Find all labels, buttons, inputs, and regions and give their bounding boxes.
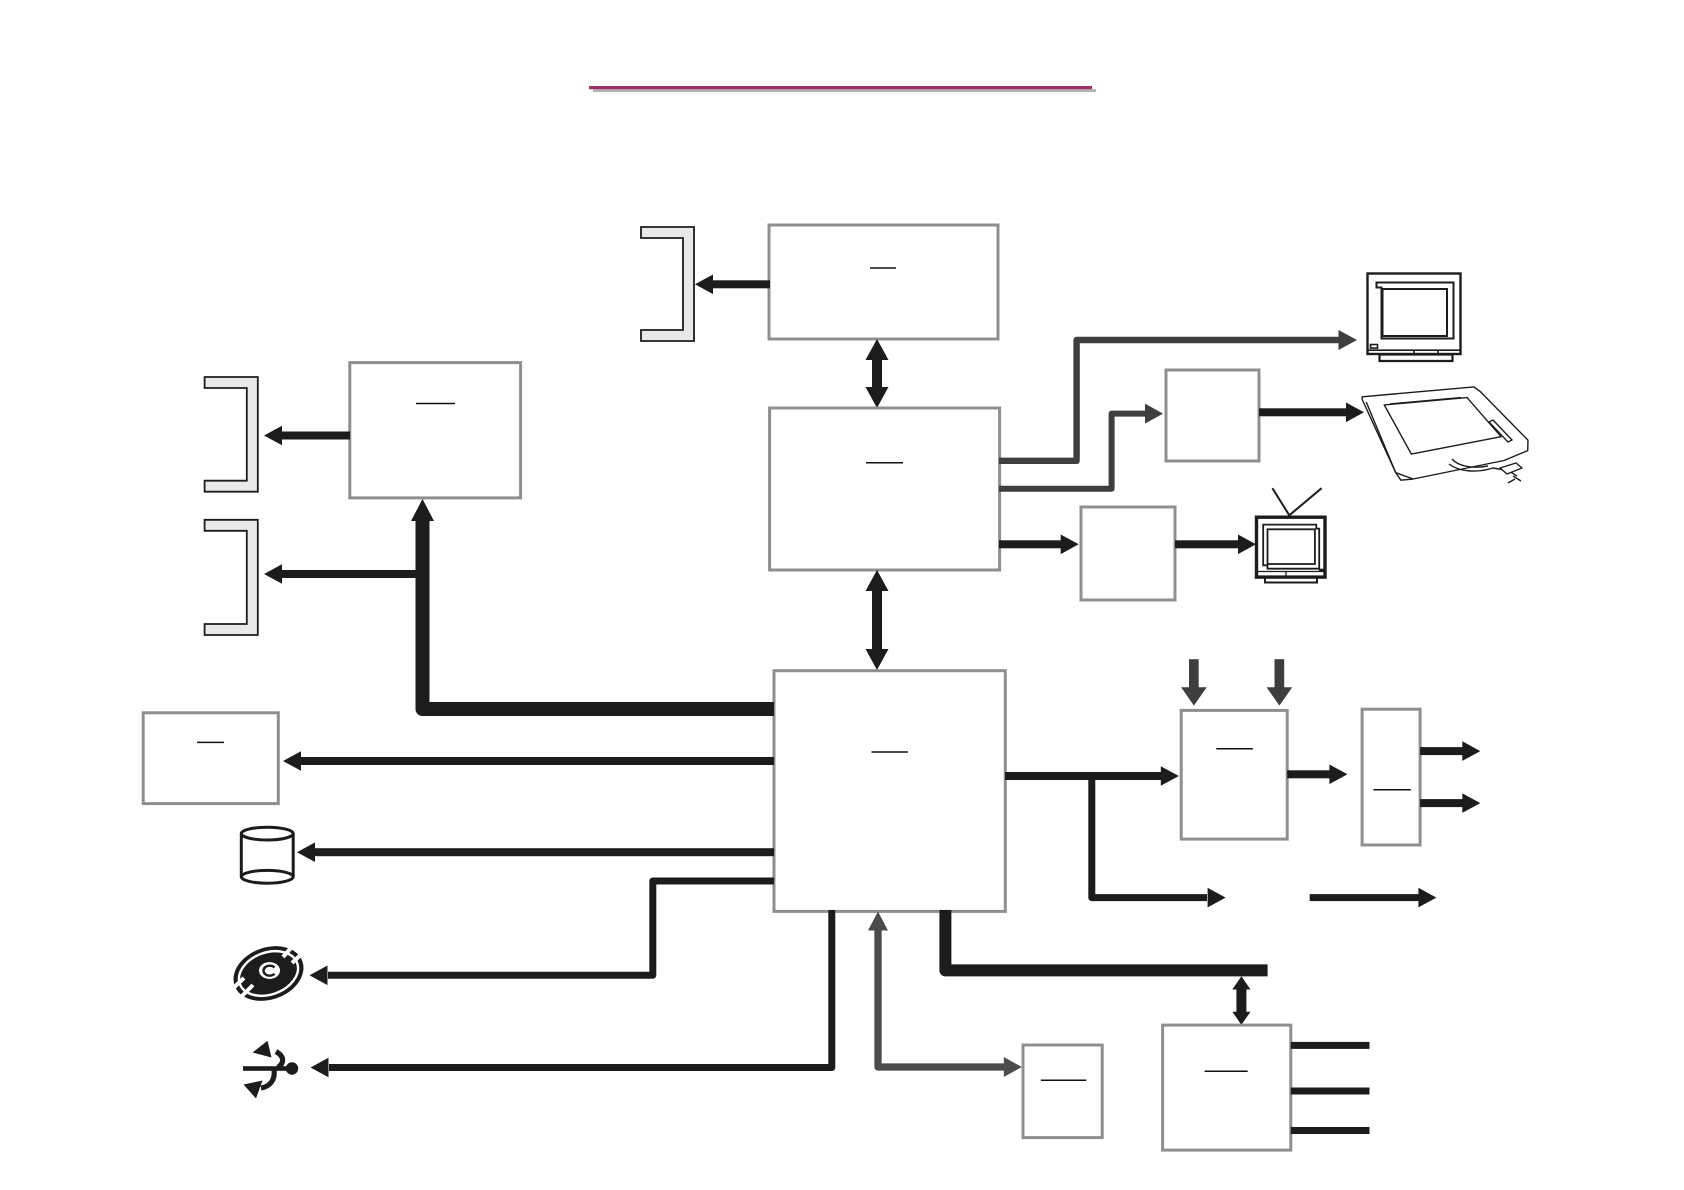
- CD-ROM icon: [226, 937, 311, 1010]
- block B2: [770, 408, 1000, 570]
- block T2: [1081, 507, 1175, 600]
- LCD panel icon: [1362, 387, 1528, 483]
- label dash R1: [1216, 748, 1253, 750]
- label dash S1: [1041, 1079, 1087, 1081]
- arrow T1 to LCD: [1259, 403, 1364, 423]
- title rule: [589, 86, 1092, 89]
- wire B2 to T1: [999, 414, 1146, 489]
- CRT monitor icon: [1368, 274, 1461, 362]
- wire B3 to CD: [328, 881, 774, 975]
- USB symbol: [243, 1041, 298, 1099]
- gray down arrow 1 into R1: [1181, 659, 1207, 705]
- small double arrow bus-R3: [1232, 976, 1250, 1025]
- cylinder store: [241, 827, 293, 883]
- label dash B1: [870, 267, 896, 269]
- block BL: [350, 363, 521, 498]
- arrowhead to monitor: [1339, 330, 1358, 350]
- arrowhead to T1: [1145, 404, 1163, 424]
- gray down arrow 2 into R1: [1267, 659, 1293, 705]
- thick bus up-arrow into BL and into B3: [423, 520, 775, 709]
- label dash BL: [416, 403, 455, 405]
- block R3: [1163, 1025, 1291, 1150]
- block BML: [143, 713, 278, 804]
- arrow bus to J3: [264, 564, 426, 584]
- arrowhead into S1: [1004, 1057, 1022, 1077]
- label dash BML: [197, 741, 224, 743]
- label dash B2: [866, 462, 903, 464]
- arrow R2 out 2: [1420, 793, 1480, 813]
- TV icon: [1257, 488, 1326, 582]
- label dash R2: [1374, 789, 1411, 791]
- block R2: [1362, 709, 1420, 845]
- arrow B1 to J1: [695, 275, 770, 295]
- arrow B2 to T2: [999, 535, 1079, 555]
- arrow R1 to R2: [1287, 765, 1347, 785]
- connector J3: [205, 520, 258, 635]
- floating arrow: [1310, 888, 1437, 908]
- R3 output line 3: [1291, 1127, 1370, 1134]
- block B3: [774, 671, 1005, 912]
- connector J1: [641, 227, 694, 341]
- title rule shadow: [593, 89, 1096, 92]
- block T1: [1166, 370, 1259, 461]
- connector J2: [205, 377, 258, 492]
- arrow BL to J2: [264, 426, 350, 446]
- wire B2 to monitor: [999, 340, 1339, 461]
- double arrow B2-B3: [866, 570, 889, 670]
- arrowhead to USB: [311, 1058, 329, 1078]
- R3 output line 1: [1291, 1042, 1370, 1049]
- arrow R2 out 1: [1420, 741, 1480, 761]
- arrow B3 to cylinder: [297, 842, 774, 862]
- R3 output line 2: [1291, 1088, 1370, 1095]
- thick bus B3 bottom to R3: [945, 910, 1267, 970]
- arrowhead branch: [1208, 888, 1226, 908]
- double arrow B1-B2: [866, 339, 889, 408]
- arrow B3 to BML: [283, 751, 774, 771]
- arrow T2 to TV: [1175, 535, 1256, 555]
- arrow B3 to R1: [1005, 766, 1179, 786]
- wire B3 to S1 (gray): [878, 930, 1004, 1067]
- block S1: [1023, 1045, 1102, 1138]
- branch wire down to arrow: [1092, 779, 1207, 898]
- label dash B3: [872, 751, 909, 753]
- block R1: [1181, 710, 1287, 839]
- wire B3 to USB: [329, 910, 832, 1068]
- block B1: [769, 225, 998, 339]
- label dash R3: [1205, 1070, 1248, 1072]
- arrowhead up into B3: [868, 912, 888, 931]
- arrowhead to CD: [310, 966, 328, 986]
